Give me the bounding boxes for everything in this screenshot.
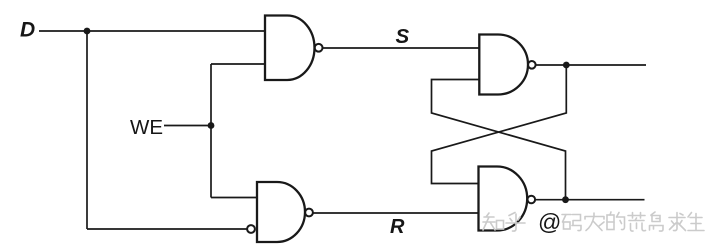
watermark char 生 xyxy=(688,213,704,231)
svg-text:S: S xyxy=(396,25,410,48)
watermark char 知 xyxy=(483,213,495,230)
node Q (junction dot on U3 output) xyxy=(563,62,570,69)
output bubble of U3 xyxy=(528,61,536,69)
svg-text:D: D xyxy=(20,19,35,42)
node B (junction dot on WE line) xyxy=(208,122,215,129)
wire D vertical down from node A xyxy=(86,31,88,229)
svg-text:@: @ xyxy=(538,209,561,235)
watermark char 荒 xyxy=(628,213,646,232)
svg-text:R: R xyxy=(390,216,405,238)
wire D input to node A xyxy=(39,30,87,32)
NAND gate U3 (top-right) xyxy=(479,35,528,95)
wire S (U1 output to U3 upper input) xyxy=(323,47,480,49)
wire feedback from node QB to U3 lower input xyxy=(432,80,566,200)
node QB (junction dot on U4 output) xyxy=(562,196,569,203)
wire WE vertical up xyxy=(210,64,212,126)
output bubble of U2 xyxy=(305,209,313,217)
watermark char 农 xyxy=(585,213,604,231)
NAND gate U1 (top-left) xyxy=(265,16,315,81)
wire node A to U1 upper input xyxy=(87,30,265,32)
wire to U1 lower input xyxy=(211,63,265,65)
wire R (U2 output to U4 lower input) xyxy=(313,212,479,214)
output bubble of U4 xyxy=(528,196,536,204)
node A (junction dot on D line) xyxy=(84,28,91,35)
wire feedback from node Q to U4 upper input xyxy=(432,65,567,184)
NAND gate U4 (bottom-right) xyxy=(479,167,528,231)
wire WE vertical down xyxy=(210,126,212,198)
watermark char 求 xyxy=(669,213,686,231)
watermark char 码 xyxy=(562,215,581,231)
output bubble of U1 xyxy=(315,44,323,52)
watermark char 的 xyxy=(607,215,614,230)
NAND gate U2 (bottom-left, inverted lower input) xyxy=(257,182,305,242)
wire to U2 upper input xyxy=(211,197,257,199)
watermark char 岛 xyxy=(650,212,664,231)
wire U3 output to node Q xyxy=(536,64,646,66)
wire U4 output to node QB xyxy=(535,199,644,201)
wire D bottom horizontal to U2 inverted input xyxy=(87,228,247,230)
svg-text:WE: WE xyxy=(130,116,163,139)
input bubble of U2 xyxy=(247,225,255,233)
wire WE to node B xyxy=(164,125,211,127)
watermark 知乎 @码农的荒岛求生 xyxy=(483,209,704,235)
watermark char 乎 xyxy=(506,213,525,232)
